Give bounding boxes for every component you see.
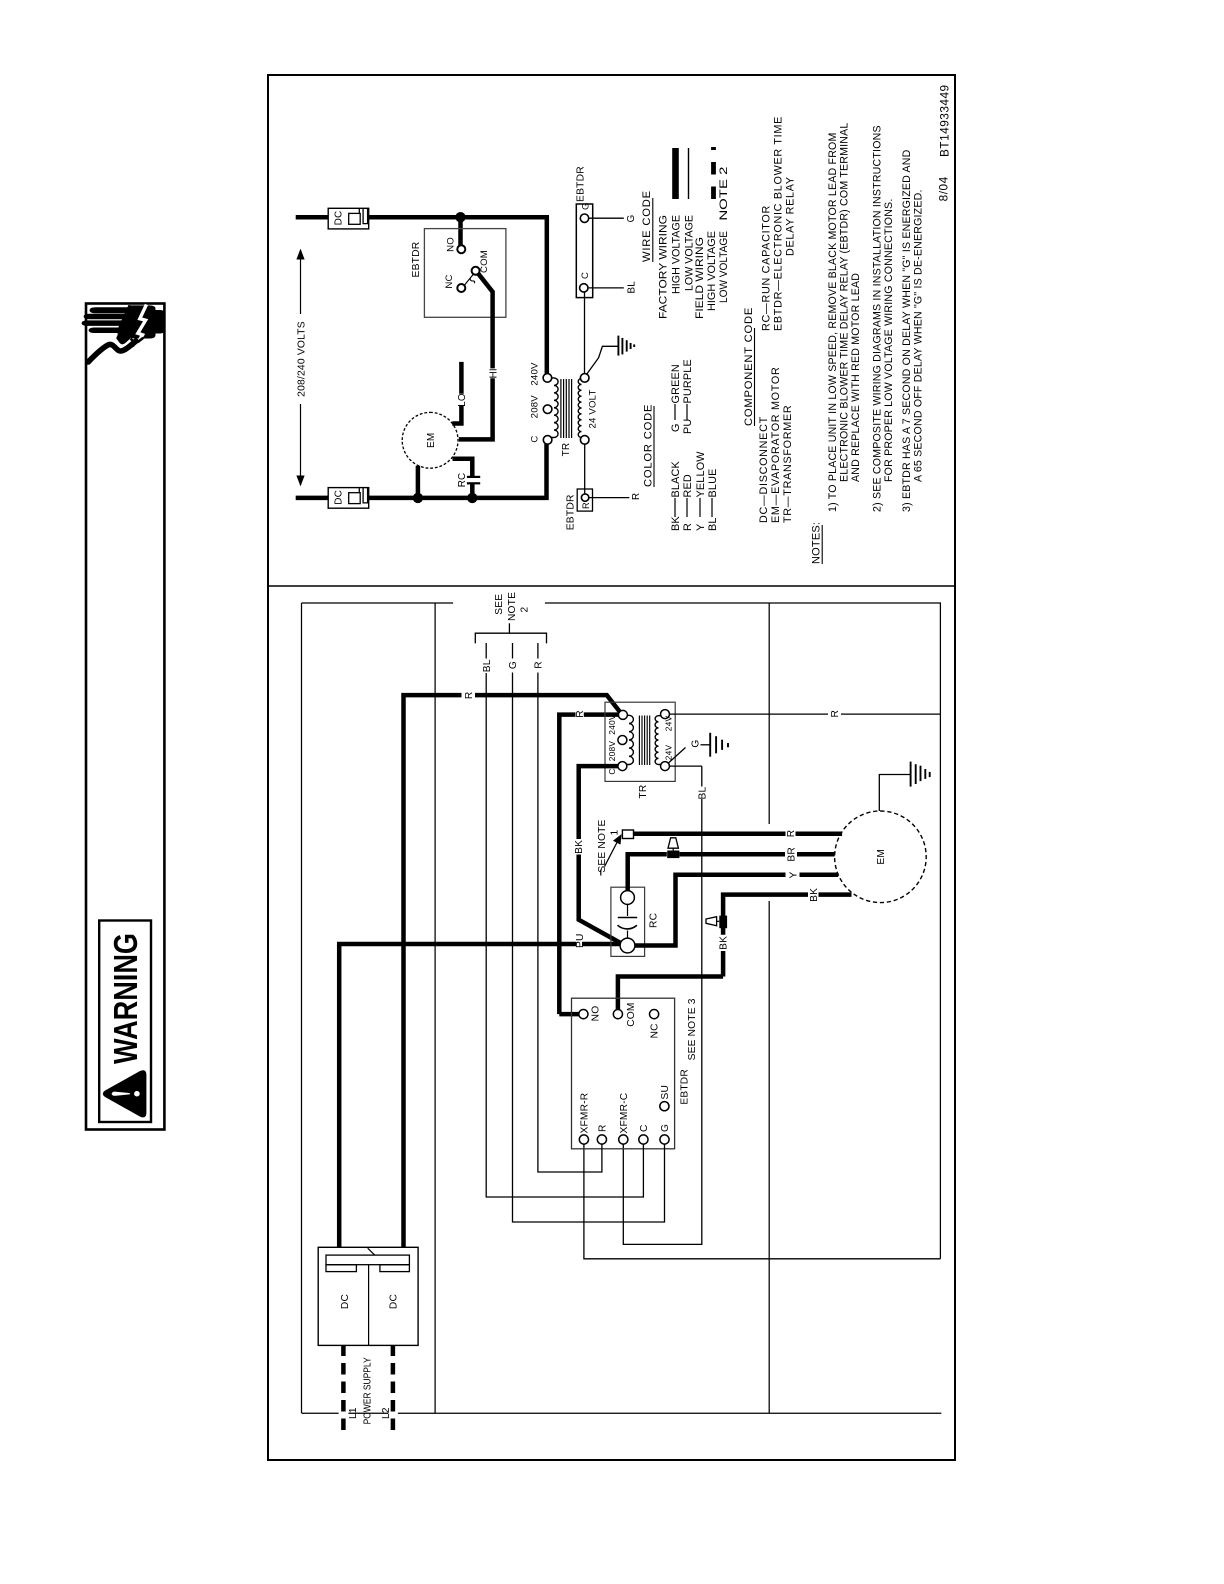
terminal COM (EBTDR) [613, 1009, 622, 1018]
svg-text:TR: TR [561, 443, 572, 457]
wire R lead from EM to open connector [634, 832, 843, 837]
svg-text:EBTDR—ELECTRONIC BLOWER TIME: EBTDR—ELECTRONIC BLOWER TIME [772, 116, 784, 331]
terminal C (ladder TR) [543, 436, 552, 445]
wire BL from TR 24V-left to XFMR-C riser [623, 766, 702, 1244]
svg-text:G: G [660, 1124, 671, 1132]
svg-text:LO: LO [457, 393, 468, 407]
warning banner strip [86, 304, 164, 1130]
svg-text:R: R [534, 661, 545, 669]
terminal 24V right (ladder TR) [580, 374, 589, 383]
cabinet bottom edge / R wire run [939, 603, 941, 1259]
transformer TR (composite) box [605, 702, 675, 781]
svg-text:SEE NOTE: SEE NOTE [597, 819, 608, 872]
terminal C (composite TR) [618, 762, 627, 771]
warning triangle [103, 1071, 146, 1117]
svg-text:SU: SU [660, 1085, 671, 1100]
field wires to bracket [485, 643, 487, 659]
svg-text:POWER SUPPLY: POWER SUPPLY [363, 1357, 374, 1424]
wire R from EBTDR NO to TR 240V [559, 715, 618, 1015]
svg-text:EBTDR: EBTDR [576, 166, 587, 202]
field wire BL staircase to C terminal [486, 673, 643, 1197]
wire PU from disconnect to RC [339, 944, 620, 1247]
svg-text:G: G [580, 202, 591, 210]
svg-text:BK: BK [670, 516, 682, 531]
contact COM (ladder) [472, 267, 480, 275]
wire BK from TR C to RC [579, 766, 621, 943]
svg-text:3) EBTDR HAS A 7 SECOND ON DEL: 3) EBTDR HAS A 7 SECOND ON DELAY WHEN "G… [901, 149, 913, 512]
capacitor RC (composite) box [611, 887, 645, 956]
svg-text:G: G [670, 423, 682, 432]
terminal box EBTDR R (ladder) [577, 489, 592, 511]
svg-text:YELLOW: YELLOW [695, 451, 707, 498]
terminal G (strip) [580, 214, 588, 222]
svg-text:BL: BL [627, 281, 638, 294]
ground (TR 24V secondary) [668, 748, 685, 764]
svg-text:R: R [631, 493, 642, 500]
svg-text:24V: 24V [664, 716, 674, 732]
terminal C (strip) [580, 284, 588, 292]
svg-text:C: C [607, 768, 617, 774]
wire R thin from TR 24V to cabinet-bottom run [669, 713, 940, 715]
bracket see note 2 [475, 633, 546, 643]
svg-text:GREEN: GREEN [670, 364, 682, 403]
svg-text:FOR PROPER LOW VOLTAGE WIRING: FOR PROPER LOW VOLTAGE WIRING CONNECTION… [883, 199, 895, 482]
svg-text:WIRE CODE: WIRE CODE [641, 190, 653, 262]
svg-text:G: G [508, 661, 519, 669]
cabinet right edge [302, 602, 454, 604]
svg-text:NOTE: NOTE [507, 592, 518, 621]
wire R terminal to field R [589, 497, 630, 499]
svg-text:SEE NOTE 3: SEE NOTE 3 [687, 998, 698, 1060]
svg-text:L2: L2 [381, 1407, 392, 1419]
svg-text:Y: Y [695, 524, 707, 531]
terminal C (EBTDR) [639, 1135, 648, 1144]
power supply lead L2 (dashed) [391, 1345, 396, 1430]
svg-text:C: C [530, 435, 541, 442]
svg-text:1) TO PLACE UNIT IN LOW SPEED,: 1) TO PLACE UNIT IN LOW SPEED, REMOVE BL… [827, 132, 839, 512]
wire Y from RC to EM [635, 875, 838, 946]
svg-text:EBTDR: EBTDR [680, 1069, 691, 1105]
svg-text:RED: RED [682, 474, 694, 497]
svg-text:TR—TRANSFORMER: TR—TRANSFORMER [782, 405, 794, 523]
svg-text:BL: BL [707, 517, 719, 531]
svg-text:BL: BL [482, 659, 493, 672]
svg-text:EM—EVAPORATOR MOTOR: EM—EVAPORATOR MOTOR [770, 367, 782, 523]
svg-text:1: 1 [610, 830, 621, 836]
svg-text:EM: EM [426, 433, 437, 448]
terminal 24V right (composite TR) [661, 710, 670, 719]
svg-text:XFMR-R: XFMR-R [580, 1093, 591, 1134]
disconnect DC (right rail) [328, 208, 369, 229]
svg-text:PU: PU [575, 933, 586, 948]
svg-text:BK: BK [719, 936, 730, 950]
svg-text:RC—RUN CAPACITOR: RC—RUN CAPACITOR [760, 205, 772, 331]
wire right rail (L1 hot leg) [296, 217, 547, 373]
terminal RC top [621, 891, 635, 905]
legend sample thick line [672, 148, 679, 199]
svg-text:COM: COM [479, 250, 490, 273]
svg-text:R: R [575, 710, 586, 718]
panel line y=769 [768, 901, 770, 1413]
svg-text:NOTE 2: NOTE 2 [718, 167, 730, 221]
terminal 240V (composite TR) [618, 710, 627, 719]
svg-text:HIGH VOLTAGE: HIGH VOLTAGE [671, 215, 683, 294]
svg-text:208/240 VOLTS: 208/240 VOLTS [296, 321, 307, 397]
svg-text:TR: TR [638, 785, 649, 799]
svg-text:L1: L1 [348, 1407, 359, 1419]
svg-text:NC: NC [650, 1023, 661, 1038]
svg-text:BK: BK [809, 888, 820, 902]
svg-text:BLUE: BLUE [707, 468, 719, 497]
svg-text:PURPLE: PURPLE [682, 359, 694, 403]
wire R thin riser to XFMR-R [584, 1144, 941, 1259]
terminal 24V left (ladder TR) [580, 436, 589, 445]
wire left rail (L2 leg) [296, 444, 547, 498]
wire BK from EBTDR COM to EM with plug [618, 895, 852, 1010]
wire R from disconnect to TR 240V [404, 695, 620, 1247]
cabinet top edge [301, 603, 303, 1413]
transformer TR (composite) coils [625, 715, 634, 764]
open connector (see note 1) [622, 830, 633, 839]
power supply lead L1 (dashed) [341, 1345, 346, 1430]
svg-text:ELECTRONIC BLOWER TIME DELAY R: ELECTRONIC BLOWER TIME DELAY RELAY (EBTD… [839, 123, 851, 482]
motor EM (ladder) [402, 412, 458, 468]
svg-text:NO: NO [446, 237, 457, 252]
svg-text:NC: NC [444, 274, 455, 288]
warning inner label box [99, 921, 151, 1123]
svg-text:BR: BR [787, 847, 798, 862]
svg-text:240V: 240V [530, 362, 541, 386]
relay EBTDR (composite) box [572, 998, 675, 1149]
svg-text:FACTORY WIRING: FACTORY WIRING [657, 215, 669, 319]
plug on BK wire [719, 916, 727, 929]
svg-text:208V: 208V [607, 741, 617, 762]
contact NO (ladder) [457, 245, 465, 253]
terminal G (EBTDR) [660, 1135, 669, 1144]
terminal NO (EBTDR) [579, 1009, 588, 1018]
svg-text:R: R [581, 502, 591, 509]
ground (ladder, from 24V secondary) [587, 346, 619, 374]
svg-text:G: G [626, 215, 637, 223]
svg-text:C: C [639, 1124, 650, 1132]
terminal RC bottom [620, 938, 635, 953]
relay switch arm [465, 275, 475, 286]
svg-text:COLOR CODE: COLOR CODE [642, 404, 654, 487]
terminal XFMR-R [579, 1135, 588, 1144]
svg-text:A 65 SECOND OFF DELAY WHEN "G": A 65 SECOND OFF DELAY WHEN "G" IS DE-ENE… [913, 189, 925, 482]
panel line y=435 [434, 603, 436, 1413]
svg-text:DC: DC [334, 490, 345, 505]
terminal 208V (ladder TR) [543, 405, 552, 414]
relay EBTDR (ladder) box [424, 229, 506, 318]
legend sample thin line [688, 148, 690, 199]
svg-text:G: G [691, 740, 702, 748]
svg-text:24V: 24V [664, 745, 674, 761]
svg-text:DELAY RELAY: DELAY RELAY [784, 176, 796, 256]
dimension arrow 208/240 VOLTS [300, 404, 302, 485]
capacitor RC plates [618, 917, 637, 919]
svg-text:R: R [464, 692, 475, 700]
svg-text:LOW VOLTAGE: LOW VOLTAGE [718, 231, 730, 303]
svg-text:BT14933449: BT14933449 [938, 84, 952, 157]
disconnect DC double box (composite) [318, 1247, 418, 1345]
cabinet left edge [302, 1412, 942, 1414]
field wire R staircase to R terminal [538, 673, 602, 1173]
legend sample dashed thick line [711, 147, 716, 199]
svg-text:BLACK: BLACK [670, 460, 682, 497]
wire 24V right to EBTDR strip C [584, 292, 586, 374]
svg-text:BL: BL [697, 786, 708, 799]
terminal R (EBTDR) [597, 1135, 606, 1144]
svg-text:2: 2 [519, 607, 530, 613]
svg-text:Y: Y [789, 872, 800, 879]
capacitor RC (ladder) [470, 484, 475, 498]
svg-text:EBTDR: EBTDR [411, 242, 422, 278]
svg-text:RC: RC [457, 473, 468, 488]
svg-text:R: R [682, 523, 694, 531]
hand electric shock icon [82, 305, 166, 363]
svg-text:R: R [786, 830, 797, 838]
svg-text:240V: 240V [607, 714, 617, 735]
svg-text:2) SEE COMPOSITE WIRING DIAGRA: 2) SEE COMPOSITE WIRING DIAGRAMS IN INST… [872, 125, 884, 512]
svg-text:FIELD WIRING: FIELD WIRING [694, 237, 706, 319]
terminal SU (EBTDR) [660, 1102, 669, 1111]
terminal 240V (ladder TR) [543, 374, 552, 383]
wire G terminal to field G [589, 217, 624, 219]
svg-text:8/04: 8/04 [937, 176, 951, 201]
svg-text:EBTDR: EBTDR [565, 494, 576, 530]
contact NC (ladder) [457, 284, 465, 292]
disconnect DC (left rail) [328, 488, 369, 509]
ground (EM) [879, 775, 910, 812]
svg-text:NO: NO [591, 1006, 602, 1022]
junction node on right rail [455, 212, 465, 222]
svg-text:COMPONENT CODE: COMPONENT CODE [743, 307, 755, 426]
transformer TR (ladder) [550, 378, 559, 438]
svg-text:BK: BK [574, 840, 585, 854]
junction node RC-left rail [467, 493, 477, 503]
wire EM to left rail [416, 466, 421, 498]
main diagram border [268, 75, 955, 1460]
svg-text:NOTES:: NOTES: [811, 522, 823, 564]
wire right rail to EBTDR NO contact [458, 217, 463, 246]
svg-text:C: C [580, 272, 591, 279]
svg-text:AND REPLACE WITH RED MOTOR LEA: AND REPLACE WITH RED MOTOR LEAD [850, 273, 862, 482]
svg-text:DC—DISCONNECT: DC—DISCONNECT [758, 416, 770, 523]
svg-text:R: R [830, 710, 841, 718]
svg-text:DC: DC [334, 211, 345, 226]
svg-text:HI: HI [488, 368, 499, 378]
svg-text:R: R [598, 1124, 609, 1132]
terminal strip EBTDR G/C (ladder) [576, 204, 592, 298]
svg-text:RC: RC [649, 913, 660, 928]
wire 24V left to EBTDR R box [584, 444, 586, 493]
svg-text:WARNING: WARNING [107, 933, 144, 1064]
svg-text:208V: 208V [530, 395, 541, 419]
svg-text:EM: EM [876, 849, 887, 865]
svg-text:HIGH VOLTAGE: HIGH VOLTAGE [706, 231, 718, 311]
wire C terminal to field BL [588, 287, 624, 289]
terminal 208V (composite TR) [618, 736, 627, 745]
svg-text:PU: PU [682, 419, 694, 434]
plug on BR wire [667, 851, 679, 859]
wire BR from RC to EM with plug [628, 854, 836, 890]
wire COM to HI (thick diagonal) [459, 273, 493, 439]
svg-text:SEE: SEE [494, 594, 505, 615]
svg-text:DC: DC [389, 1294, 400, 1309]
terminal NC (EBTDR) [650, 1009, 659, 1018]
motor EM (composite) [835, 811, 927, 903]
wire LO lead (open) [452, 362, 461, 424]
svg-text:XFMR-C: XFMR-C [619, 1093, 630, 1134]
terminal XFMR-C [619, 1135, 628, 1144]
svg-text:24 VOLT: 24 VOLT [588, 389, 599, 428]
svg-text:COM: COM [626, 1002, 637, 1026]
svg-text:DC: DC [340, 1294, 351, 1309]
terminal 24V left (composite TR) [661, 762, 670, 771]
junction node EM-left rail [413, 493, 423, 503]
field wire G staircase to G terminal [513, 673, 665, 1223]
section divider line [268, 585, 955, 587]
